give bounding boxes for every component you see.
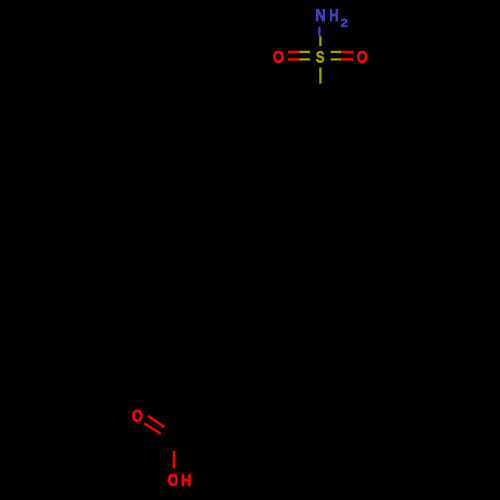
bond N-S upper half (N blue) xyxy=(318,27,320,36)
double bond S=O right, upper line, S half (olive) xyxy=(331,51,342,53)
amine N label: subscript 2 (blue) xyxy=(341,19,347,27)
left sulfonyl oxygen label O (red) xyxy=(273,51,283,63)
amine N label: letter N (blue) xyxy=(316,9,325,21)
bond N-S lower half (S olive) xyxy=(319,36,321,46)
sulfur label S (olive) xyxy=(316,51,324,62)
amine N label: letter H (blue) xyxy=(330,9,338,21)
hydroxyl label: letter H (red) xyxy=(182,475,190,486)
double bond S=O left, lower line, O half (red) xyxy=(288,58,299,60)
double bond S=O left, lower line, S half (olive) xyxy=(299,58,310,60)
double bond S=O left, upper line, O half (red) xyxy=(288,51,299,53)
carboxyl carbonyl oxygen label O (red) xyxy=(132,410,142,422)
bond C-OH lower half (O red, C half invisible on black) xyxy=(173,451,175,468)
double bond S=O right, lower line, S half (olive) xyxy=(331,58,342,60)
bond S-C stub (S half olive, C half invisible on black) xyxy=(319,68,321,84)
hydroxyl label: letter O (red) xyxy=(168,474,178,486)
double bond C=O, outer line, O half (red) xyxy=(148,416,164,427)
double bond S=O right, lower line, O half (red) xyxy=(341,58,353,60)
double bond S=O right, upper line, O half (red) xyxy=(341,51,353,53)
double bond C=O, inner line, O half (red) xyxy=(144,423,160,433)
double bond S=O left, upper line, S half (olive) xyxy=(299,51,310,53)
right sulfonyl oxygen label O (red) xyxy=(357,51,367,63)
